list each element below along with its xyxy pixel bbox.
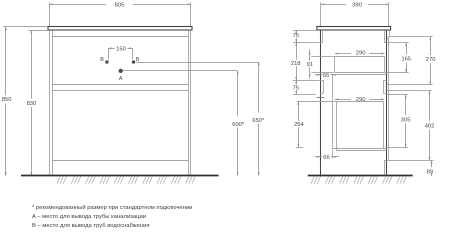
svg-text:600*: 600*	[232, 122, 245, 128]
front panel line	[320, 30, 322, 175]
back plinth line	[384, 160, 386, 175]
dim 600*	[237, 71, 239, 117]
svg-text:290: 290	[356, 51, 366, 57]
dim 305 extensions	[387, 94, 409, 96]
ground line left	[21, 175, 219, 177]
svg-text:218: 218	[291, 61, 301, 67]
svg-text:A: A	[119, 76, 123, 82]
svg-text:305: 305	[401, 117, 411, 123]
svg-text:290: 290	[356, 97, 366, 103]
left side wall	[49, 31, 51, 176]
countertop side view	[317, 27, 391, 31]
dim 290 upper	[335, 53, 351, 55]
svg-text:B: B	[136, 57, 140, 63]
svg-text:830: 830	[27, 101, 37, 107]
right side wall	[188, 31, 190, 176]
dim 850	[5, 27, 7, 95]
node B left dot	[105, 60, 108, 63]
svg-text:805: 805	[115, 2, 125, 8]
svg-text:402: 402	[425, 123, 435, 129]
top rail line	[52, 36, 188, 38]
svg-text:150: 150	[116, 46, 126, 52]
dim 290 lower	[335, 99, 351, 101]
niche bottom / divider top	[52, 84, 188, 86]
dim 402	[429, 91, 431, 122]
dim 390	[321, 4, 346, 6]
dim 89	[431, 160, 433, 167]
svg-text:89: 89	[427, 170, 433, 176]
dim 75 upper extensions	[293, 30, 316, 32]
dim 165 extensions	[384, 42, 409, 44]
dim 650*	[258, 62, 260, 113]
dim 66 lower	[315, 156, 323, 158]
dim 270 extensions	[389, 36, 432, 38]
divider bottom / drawer top	[52, 90, 188, 92]
svg-text:75: 75	[293, 33, 299, 39]
svg-text:* рекомендованный размер при с: * рекомендованный размер при стандартном…	[32, 204, 192, 211]
lower drawer box	[336, 102, 338, 151]
svg-text:75: 75	[293, 85, 299, 91]
svg-text:270: 270	[426, 57, 436, 63]
ground hatch right	[311, 176, 406, 183]
dim 150 extension lines	[108, 49, 110, 60]
dim 66 lower extension	[332, 150, 334, 158]
bottom panel line	[52, 160, 188, 162]
dim 89 extension	[385, 160, 434, 162]
node A dot	[119, 69, 123, 73]
svg-text:390: 390	[352, 2, 362, 8]
svg-text:254: 254	[294, 122, 304, 128]
back panel inner line	[388, 36, 390, 160]
drawer gap section back	[383, 80, 385, 93]
dim 91 extension lines	[311, 56, 334, 58]
dim 830 extension	[29, 30, 49, 32]
top rail section front	[322, 30, 324, 42]
dim 75 upper	[296, 30, 298, 32]
node B right dot	[132, 60, 135, 63]
dim 165	[406, 43, 408, 54]
dim 91	[309, 50, 311, 57]
upper drawer box	[335, 56, 385, 58]
ground line right	[308, 175, 413, 177]
dim 66 upper / divider line	[315, 74, 323, 76]
svg-text:91: 91	[307, 62, 313, 68]
back panel line	[386, 30, 388, 175]
drawer gap section front	[323, 80, 325, 93]
svg-text:650*: 650*	[252, 118, 265, 124]
dim 830	[31, 31, 33, 99]
svg-text:165: 165	[401, 57, 411, 63]
svg-text:66: 66	[323, 73, 329, 79]
dim 805 extension lines	[49, 2, 51, 26]
drawer inner face line	[332, 75, 334, 149]
dim 218 extension	[293, 80, 320, 82]
dim 254	[298, 102, 300, 121]
dim 390 extension lines	[320, 2, 322, 26]
svg-text:A – место для вывода трубы кан: A – место для вывода трубы канализации	[32, 214, 146, 220]
dim 850 extension	[3, 26, 47, 28]
dim 270	[430, 37, 432, 55]
dim 218	[296, 43, 298, 60]
dim 305	[405, 95, 407, 116]
svg-text:66: 66	[323, 155, 329, 161]
dim 402 extension	[387, 90, 432, 92]
leader B to dim 650	[135, 62, 258, 64]
dim 150	[108, 48, 115, 50]
svg-text:B – место для вывода труб водо: B – место для вывода труб водоснабжения	[32, 223, 150, 228]
ground hatch left	[57, 176, 195, 183]
dim 805	[49, 4, 106, 6]
dim 75 lower	[296, 80, 298, 84]
svg-text:B: B	[100, 57, 104, 63]
lower drawer box top	[297, 101, 384, 103]
top rail section back	[384, 30, 386, 43]
countertop front view	[48, 27, 192, 31]
leader A to dim 600	[123, 70, 238, 72]
dim 254 extension	[296, 147, 303, 149]
dim 75 lower extension	[293, 94, 316, 96]
svg-text:850: 850	[2, 97, 12, 103]
lower drawer front top edge	[317, 97, 325, 99]
